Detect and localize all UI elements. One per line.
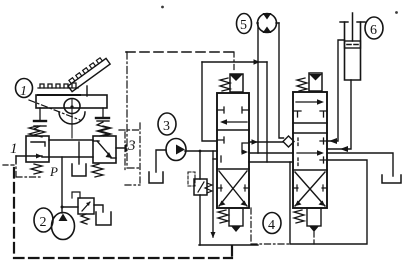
svg-text:P: P	[49, 164, 58, 179]
enclosure dash-dot right outer	[119, 123, 140, 185]
tank T3	[96, 212, 111, 225]
wire upper cross line	[202, 59, 267, 64]
pump	[52, 213, 75, 240]
gauge / flow meter	[257, 13, 279, 33]
main valve V1 body	[217, 93, 249, 208]
sequence valve pilot dashed box	[188, 172, 195, 186]
pivot circle	[64, 99, 80, 139]
wire pump riser	[61, 157, 63, 213]
pedal valve 3 spring top	[100, 126, 111, 136]
main valve V2 body	[293, 92, 327, 208]
callout 4	[263, 213, 281, 234]
V1 bottom spring	[218, 210, 228, 223]
wire y148 branch	[78, 142, 80, 157]
wire bottom collector	[199, 244, 258, 246]
svg-text:1: 1	[20, 84, 27, 99]
foot pedal angled plate	[66, 55, 110, 92]
V2 box2 ports	[298, 138, 327, 146]
shuttle valve	[283, 136, 294, 147]
enclosure dash-dot right inner	[124, 132, 126, 172]
svg-text:3: 3	[127, 138, 136, 154]
wire V2 to tank	[327, 153, 393, 176]
pedal valve 3 spring bottom	[92, 164, 103, 177]
wire V1-V2 link C	[249, 161, 293, 163]
speck top middle	[161, 6, 164, 9]
wire motor left to tank	[156, 150, 166, 172]
wire valve1 left port y159	[213, 158, 217, 160]
callout 2	[34, 208, 53, 232]
svg-text:4: 4	[268, 218, 275, 233]
cylinder	[340, 13, 365, 80]
dash-dot sight line	[29, 100, 80, 120]
tank T1	[72, 157, 86, 176]
V2 bottom pilot box	[307, 208, 321, 232]
V1 box1 ports	[217, 107, 249, 113]
svg-text:2: 2	[40, 215, 47, 230]
relief valve RV1 pilot step	[72, 192, 80, 198]
enclosure big dashed left	[127, 52, 141, 168]
pilot valve V2 top spring	[297, 78, 307, 91]
wire cylinder rod-side	[327, 40, 345, 141]
sequence valve body	[194, 179, 207, 195]
wire motor output	[185, 150, 217, 152]
wire gauge right drop	[279, 23, 284, 138]
valve 3 right port	[116, 145, 126, 151]
wire valve1-valve3 mid	[42, 156, 93, 158]
wire valve1-valve3 top	[49, 139, 93, 141]
foot pedal toothed bar	[38, 83, 80, 95]
V2 bottom spring	[294, 210, 304, 223]
relief valve RV1 spring	[81, 214, 89, 224]
svg-text:3: 3	[163, 119, 170, 134]
enclosure big dashed bottom	[14, 168, 232, 258]
V2 pilot drain dash	[313, 232, 315, 244]
wire cylinder cap-side	[327, 80, 351, 149]
pedal support leg	[86, 86, 88, 96]
V2 box2 arrow	[297, 150, 327, 165]
wire return frame	[290, 160, 367, 244]
enclosure stub left	[3, 164, 14, 166]
svg-text:6: 6	[370, 23, 377, 38]
wire V1-V2 link A with shuttle	[249, 139, 283, 144]
callout 5	[237, 14, 252, 34]
right pedal spring	[96, 108, 109, 136]
V1 box2 path	[217, 137, 249, 162]
pedal valve 1 spring bottom	[31, 164, 42, 174]
pilot valve V1 top pilot box	[230, 74, 244, 92]
pedal valve 1 arrow	[16, 154, 42, 164]
enclosure big dashed top	[126, 51, 234, 53]
callout 6	[365, 17, 383, 39]
svg-text:1: 1	[10, 141, 18, 157]
enclosure pilot drop	[233, 52, 235, 71]
left pedal spring	[34, 108, 46, 137]
wire upper drop to valve1	[202, 62, 217, 141]
wire mid drop	[266, 62, 268, 162]
tank T2	[382, 175, 401, 183]
tank T4	[149, 172, 163, 183]
hydraulic motor	[166, 139, 186, 161]
callout 3	[158, 113, 176, 135]
wire relief branch	[62, 206, 78, 208]
svg-text:5: 5	[240, 18, 247, 33]
speck top right	[395, 11, 398, 14]
callout 1	[16, 79, 33, 100]
sequence valve spring	[205, 183, 212, 193]
wire valve1 left drop	[212, 151, 214, 237]
pedal valve 3 body	[93, 136, 116, 163]
wire gauge left drop	[257, 23, 259, 153]
pedal valve 1 spring top	[29, 126, 40, 136]
pedal base plate	[36, 95, 107, 108]
wire V1-V2 link B	[249, 152, 293, 154]
enclosure dash-dot left corner	[16, 158, 42, 177]
V1 box4 cross	[217, 171, 249, 206]
pedal valve 1 body	[26, 136, 49, 162]
V2 box4 cross	[293, 172, 327, 206]
relief valve outlet wire	[94, 205, 103, 212]
V2 box1 arrow	[294, 99, 327, 117]
V1 bottom pilot box	[229, 208, 243, 232]
V1 box1 arrow	[220, 119, 247, 125]
relief valve RV1 body	[78, 198, 94, 214]
cam arc	[59, 112, 85, 124]
V1 pilot drain dash	[251, 208, 290, 244]
pilot valve V2 top pilot box	[309, 73, 322, 91]
wire seq riser	[199, 151, 201, 245]
pilot valve V1 top spring	[220, 78, 230, 91]
